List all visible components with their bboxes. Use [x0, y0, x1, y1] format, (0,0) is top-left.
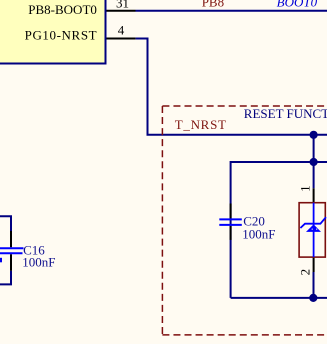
svg-text:RESET FUNCTION: RESET FUNCTION [244, 106, 327, 121]
svg-text:4: 4 [118, 23, 125, 38]
svg-text:2: 2 [298, 269, 313, 276]
svg-text:100nF: 100nF [242, 227, 275, 242]
pin 31 stub [107, 10, 136, 12]
zener diode anode triangle [306, 224, 321, 232]
junction node A (T_NRST / TVS pin 1) [310, 131, 318, 139]
wire T_NRST (from pin 4 down and right) [136, 39, 327, 135]
wire bottom branch [231, 297, 327, 299]
svg-text:100nF: 100nF [22, 254, 55, 269]
svg-text:31: 31 [116, 0, 129, 11]
capacitor C16 plates [0, 247, 24, 249]
wire TVS pin2 to bottom node [313, 272, 315, 298]
svg-text:PB8-BOOT0: PB8-BOOT0 [28, 2, 97, 17]
svg-text:1: 1 [298, 185, 313, 192]
TVS D? pin 1 stub (black) [313, 188, 315, 203]
TVS D? pin 2 stub (black) [313, 257, 315, 272]
zener diode cathode bar [300, 217, 326, 228]
svg-text:PG10-NRST: PG10-NRST [25, 28, 98, 43]
pin 4 stub [107, 38, 136, 40]
dashed box RESET FUNCTION region [162, 106, 327, 335]
capacitor C20 plates [219, 218, 242, 220]
junction node B (C20 top / TVS) [310, 158, 318, 166]
TVS D? symbol vertical line [313, 203, 315, 257]
wire C20 top branch [231, 162, 327, 298]
TVS D? body outline (dark red rect) [299, 203, 325, 257]
cut-off text fragment at left edge [0, 258, 2, 263]
anode triangle white specks [312, 229, 313, 230]
svg-text:PB8: PB8 [202, 0, 224, 9]
svg-text:T_NRST: T_NRST [175, 117, 227, 132]
svg-text:BOOT0: BOOT0 [277, 0, 318, 10]
wire net PB8/BOOT0 [136, 10, 327, 12]
junction node C (bottom) [309, 294, 317, 302]
op-amp/IC body U1 (yellow MCU part, cut off at left/top) [0, 0, 106, 64]
wire TVS vertical [313, 135, 315, 189]
capacitor C16 pins (black stubs) [10, 231, 12, 247]
capacitor C16 wires (navy) [0, 216, 11, 231]
capacitor C20 pins (black stubs) [230, 204, 232, 219]
